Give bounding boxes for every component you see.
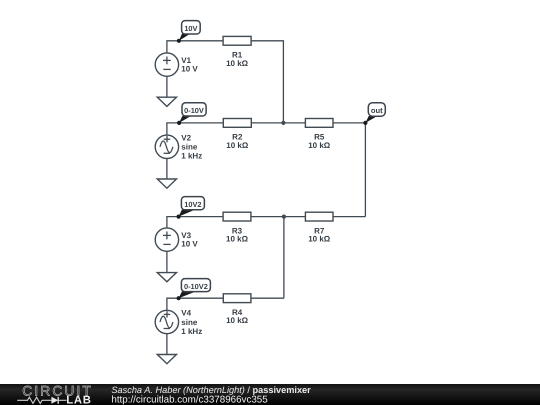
svg-text:V2: V2: [181, 134, 191, 143]
svg-text:sine: sine: [181, 318, 198, 327]
node label out: [363, 103, 385, 125]
wire V3 bottom to ground: [166, 251, 168, 272]
node label 0-10V2: [177, 279, 211, 301]
svg-text:0-10V2: 0-10V2: [184, 282, 208, 291]
svg-text:sine: sine: [181, 143, 198, 152]
wire row B: R5 right to out corner, down to row C: [333, 123, 365, 217]
ground G1: [157, 97, 176, 106]
resistor R3: [223, 212, 251, 243]
svg-text:10 kΩ: 10 kΩ: [226, 59, 249, 68]
svg-text:1 kHz: 1 kHz: [181, 327, 202, 336]
wire row A: V1 top to R1: [167, 41, 223, 53]
svg-text:http://circuitlab.com/c3378966: http://circuitlab.com/c3378966vc355: [111, 394, 268, 405]
svg-text:10 kΩ: 10 kΩ: [308, 235, 331, 244]
svg-text:10 kΩ: 10 kΩ: [226, 316, 249, 325]
ground G3: [157, 273, 176, 282]
svg-text:0-10V: 0-10V: [184, 106, 204, 115]
svg-text:V3: V3: [181, 231, 191, 240]
voltage source V1: [155, 53, 198, 76]
voltage source V3: [155, 228, 198, 251]
svg-text:V4: V4: [181, 309, 191, 318]
resistor R4: [223, 294, 251, 325]
node label 10V2: [177, 197, 205, 219]
ground G4: [157, 355, 176, 364]
svg-text:10 kΩ: 10 kΩ: [308, 141, 331, 150]
resistor R7: [305, 212, 333, 243]
svg-text:10V: 10V: [184, 24, 197, 33]
wire V4 bottom to ground: [166, 334, 168, 355]
logo schematic squiggle with diode: [17, 397, 66, 404]
voltage source V2 (sine): [155, 134, 202, 161]
svg-text:10 kΩ: 10 kΩ: [226, 235, 249, 244]
voltage source V4 (sine): [155, 309, 202, 336]
junction row C: [282, 215, 286, 219]
wire row A: R1 right to corner and down to row B: [251, 41, 283, 123]
junction row B: [281, 121, 285, 125]
wire V1 bottom to ground: [166, 76, 168, 97]
svg-text:1 kHz: 1 kHz: [181, 152, 202, 161]
svg-text:10 V: 10 V: [181, 240, 198, 249]
node label 0-10V: [177, 103, 206, 125]
svg-text:LAB: LAB: [66, 395, 91, 405]
ground G2: [157, 179, 176, 188]
wire row C: R3 right to R7: [251, 216, 306, 218]
wire row C junction down to row D: [283, 217, 285, 299]
wire row B: R2 right to R5: [251, 122, 305, 124]
svg-text:10V2: 10V2: [184, 200, 201, 209]
resistor R5: [305, 119, 333, 150]
wire row D: V4 top to R4: [167, 298, 223, 310]
svg-text:out: out: [371, 106, 383, 115]
resistor R2: [223, 119, 251, 150]
wire row B: V2 top to R2: [167, 123, 223, 135]
wire row C: V3 top to R3: [167, 217, 223, 229]
wire row D: R4 right to corner up to row C: [251, 297, 284, 299]
resistor R1: [223, 36, 251, 67]
svg-text:10 V: 10 V: [181, 65, 198, 74]
svg-text:10 kΩ: 10 kΩ: [226, 141, 249, 150]
wire V2 bottom to ground: [166, 159, 168, 180]
node label 10V: [177, 21, 200, 43]
wire row C: R7 right to out column: [333, 216, 365, 218]
